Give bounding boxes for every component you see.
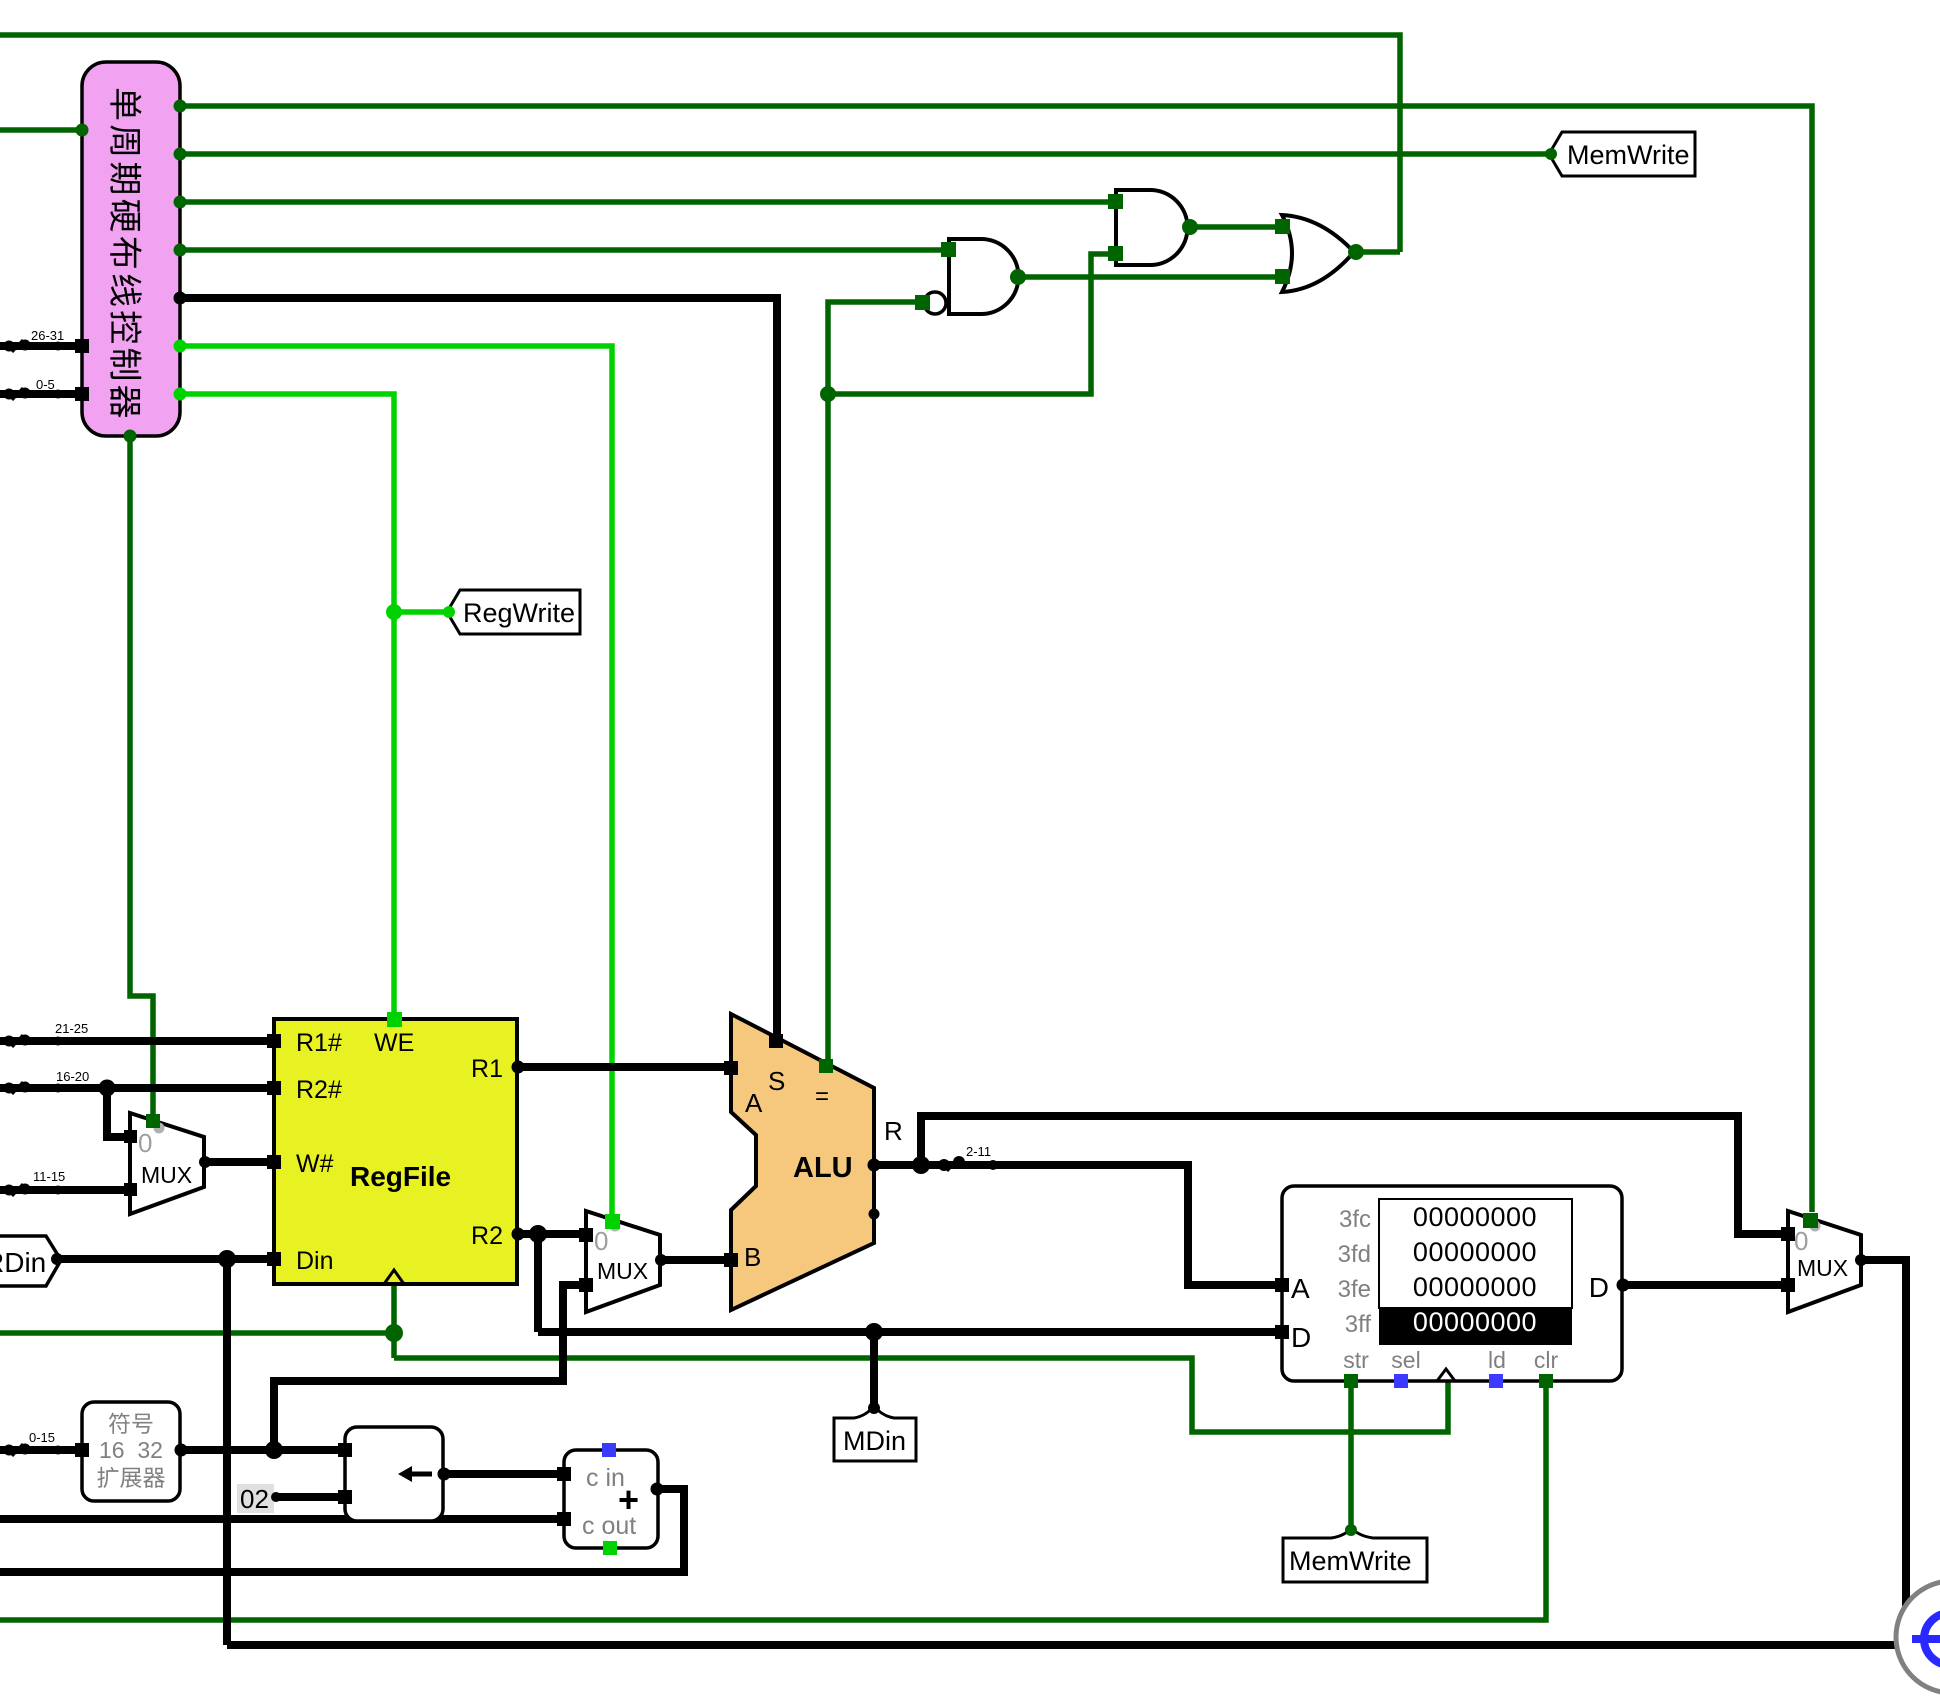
svg-text:D: D (1589, 1272, 1609, 1303)
junction EQ node (820, 386, 836, 402)
splitter marks bus 21-25 (4, 1035, 63, 1048)
splitter marks bus 11-15 (4, 1184, 63, 1197)
port dot MemWrite tunnel bottom (1345, 1524, 1357, 1536)
wire controller out2 to MemWrite tunnel (180, 151, 1549, 157)
wire bus 16-20 to RegFile R2# (0, 1084, 274, 1092)
svg-text:26-31: 26-31 (31, 328, 64, 343)
left MUX ports (124, 1114, 211, 1196)
wire controller out3 to AND gate input A (180, 199, 1116, 205)
svg-text:A: A (745, 1088, 763, 1118)
svg-text:R1: R1 (471, 1055, 503, 1083)
right MUX M3 (1788, 1211, 1861, 1312)
wire controller bottom to left MUX select (130, 436, 153, 1122)
svg-text:2-11: 2-11 (966, 1144, 991, 1159)
svg-text:00000000: 00000000 (1413, 1202, 1537, 1232)
left MUX M1 (130, 1113, 204, 1214)
svg-text:16 32: 16 32 (99, 1437, 163, 1463)
constant 02 (237, 1484, 274, 1514)
svg-text:B: B (744, 1242, 761, 1272)
wire writeback bottom rail to output pin (227, 1641, 1898, 1649)
svg-text:00000000: 00000000 (1413, 1237, 1537, 1267)
junction ALU R branch (912, 1156, 930, 1174)
junction Din writeback (218, 1250, 236, 1268)
output pin P1 (1896, 1581, 1940, 1693)
svg-text:3fc: 3fc (1339, 1206, 1371, 1233)
svg-text:3fe: 3fe (1338, 1276, 1371, 1303)
svg-text:sel: sel (1391, 1347, 1420, 1373)
svg-text:RegWrite: RegWrite (463, 598, 575, 628)
ALU U3 (731, 1014, 903, 1310)
wire constant 02 to shifter input1 (274, 1493, 345, 1501)
svg-text:0-5: 0-5 (36, 377, 55, 392)
wire top feedback loop from OR gate output to left edge (0, 35, 1400, 252)
memory ports (1275, 1278, 1630, 1388)
wire controller left input (0, 127, 82, 133)
svg-text:D: D (1291, 1322, 1311, 1353)
wire left MUX output to RegFile W# (204, 1158, 274, 1166)
wire OR output to feedback (1354, 249, 1400, 255)
junction immediate branch (265, 1441, 283, 1459)
junction MDin (865, 1323, 883, 1341)
svg-text:R1#: R1# (296, 1029, 342, 1057)
splitter marks bus 16-20 (4, 1082, 63, 1095)
svg-text:clr: clr (1534, 1347, 1559, 1373)
controller port dots (75, 100, 187, 443)
splitter marks bus 0-5 (4, 388, 63, 401)
wire memory str to MemWrite tunnel (1348, 1383, 1354, 1534)
wire B-MUX output to ALU B (660, 1256, 725, 1264)
svg-text:R: R (884, 1116, 903, 1146)
svg-text:R2: R2 (471, 1222, 503, 1250)
port dot RegWrite tunnel (443, 606, 455, 618)
tunnel RegWrite (447, 590, 580, 634)
svg-text:A: A (1291, 1273, 1310, 1304)
svg-text:ALU: ALU (793, 1152, 853, 1184)
constant 02 port (271, 1492, 281, 1502)
wire immediate to B-MUX input1 (274, 1285, 581, 1450)
svg-text:0-15: 0-15 (29, 1430, 55, 1445)
wire bus 0-5 into controller (0, 390, 82, 398)
junction RegFile clock (385, 1324, 403, 1342)
wire Din tunnel to RegFile Din (59, 1255, 274, 1263)
svg-text:3ff: 3ff (1345, 1311, 1372, 1338)
wire R2 run to memory D input (538, 1328, 1284, 1336)
extender ports (75, 1443, 188, 1457)
wire RegFile R1 to ALU A (517, 1063, 725, 1071)
wire bus 11-15 to left MUX input1 (0, 1186, 130, 1194)
wire controller out7 RegWrite to RegFile WE (180, 394, 394, 1021)
extender U5 sign extend 16 to 32 (82, 1402, 180, 1501)
wire clock from left edge to RegFile clock node (0, 1330, 394, 1336)
RegFile U2 (274, 1019, 517, 1284)
NAND gate ports (915, 242, 1026, 310)
splitter marks bus 2-11 (938, 1156, 998, 1171)
OR gate ports (1275, 219, 1364, 284)
adder U7 (564, 1450, 658, 1548)
wire memory D output to right MUX input1 (1622, 1281, 1788, 1289)
AND gate G2 with inverted input (924, 239, 1019, 314)
svg-text:R2#: R2# (296, 1076, 342, 1104)
wire bus 0-15 into extender (0, 1446, 82, 1454)
wire controller out5 ALU op to ALU S (180, 298, 777, 1043)
wire ALU R branch to right MUX input0 (921, 1116, 1788, 1234)
svg-text:0: 0 (1794, 1226, 1808, 1256)
svg-text:MUX: MUX (1797, 1255, 1848, 1281)
port dot Din tunnel (51, 1253, 63, 1265)
port dot MDin tunnel (868, 1402, 880, 1414)
wire bus 26-31 into controller (0, 342, 82, 350)
svg-text:S: S (768, 1066, 785, 1096)
svg-text:str: str (1343, 1347, 1369, 1373)
AND gate ports (1108, 194, 1198, 261)
wire branch R2 down to memory D (534, 1234, 542, 1332)
wire controller out4 to NAND gate input A (180, 247, 949, 253)
svg-text:3fd: 3fd (1338, 1241, 1371, 1268)
shifter ports (338, 1443, 451, 1504)
wire extender output to shifter (180, 1446, 345, 1454)
svg-text:MUX: MUX (597, 1258, 648, 1284)
svg-text:Din: Din (296, 1247, 334, 1275)
wire clock run to memory clock (394, 1358, 1448, 1432)
shifter U6 shift left (345, 1427, 443, 1521)
tunnel MDin (834, 1406, 916, 1461)
tunnel Din left edge (0, 1236, 61, 1286)
wire branch 16-20 to left MUX input0 (107, 1088, 130, 1137)
wire controller out6 to B-MUX select (180, 346, 612, 1221)
junction RegWrite (386, 604, 402, 620)
B MUX ports (579, 1214, 667, 1292)
svg-text:02: 02 (240, 1484, 269, 1514)
svg-text:ld: ld (1488, 1347, 1506, 1373)
svg-text:RegFile: RegFile (350, 1161, 451, 1192)
junction R2 branch (529, 1225, 547, 1243)
svg-text:MemWrite: MemWrite (1567, 140, 1690, 170)
svg-text:W#: W# (296, 1150, 334, 1178)
wire node EQ down to ALU equal port (825, 394, 831, 1062)
ALU ports (724, 1034, 881, 1267)
svg-text:=: = (815, 1083, 829, 1110)
wire node RegWrite to RegWrite tunnel (394, 609, 447, 615)
RegFile ports (267, 1012, 525, 1266)
svg-text:MDin: MDin (843, 1426, 906, 1456)
svg-text:0: 0 (138, 1128, 152, 1158)
splitter marks bus 0-15 (4, 1444, 63, 1457)
wire ALU equal to NAND inverted input (828, 302, 926, 394)
svg-text:MUX: MUX (141, 1162, 192, 1188)
svg-text:MemWrite: MemWrite (1289, 1546, 1412, 1576)
wire NAND output to OR input B (1016, 274, 1280, 280)
svg-text:RDin: RDin (0, 1247, 46, 1278)
svg-text:21-25: 21-25 (55, 1021, 88, 1036)
tunnel MemWrite bottom (1283, 1528, 1427, 1582)
wire adder output loop to left edge (0, 1489, 684, 1572)
wire right MUX output down to writeback rail (1859, 1260, 1906, 1606)
wire ALU R to memory A (874, 1165, 1284, 1285)
svg-text:00000000: 00000000 (1413, 1307, 1537, 1337)
memory U4 RAM (1282, 1186, 1622, 1381)
svg-text:0: 0 (594, 1226, 608, 1256)
OR gate G3 (1282, 215, 1354, 292)
wire memory D node to MDin tunnel (870, 1332, 878, 1406)
adder ports (557, 1443, 664, 1555)
wire RegFile R2 to B-MUX input0 (517, 1230, 581, 1238)
svg-text:00000000: 00000000 (1413, 1272, 1537, 1302)
svg-text:WE: WE (374, 1029, 414, 1057)
wire RegFile clock stub (391, 1282, 397, 1358)
svg-text:11-15: 11-15 (33, 1169, 65, 1184)
junction 16-20 branch (99, 1080, 116, 1097)
wire controller out1 to right MUX select (180, 106, 1812, 1212)
wire node EQ to AND input B (828, 254, 1116, 394)
wire lower bus to adder input1 (0, 1515, 564, 1523)
AND gate G1 (1116, 190, 1188, 265)
port dot MemWrite tunnel top (1545, 148, 1557, 160)
wire AND output to OR input A (1188, 224, 1280, 230)
svg-text:16-20: 16-20 (56, 1069, 89, 1084)
wire writeback vertical from Din node (223, 1259, 231, 1645)
wire shifter output to adder input0 (443, 1470, 564, 1478)
svg-text:c out: c out (582, 1512, 636, 1540)
right MUX ports (1781, 1213, 1867, 1292)
splitter marks bus 26-31 (4, 340, 63, 353)
controller U1 single-cycle hardwired control (82, 62, 180, 436)
B MUX M2 (586, 1211, 660, 1312)
wire memory clr to bottom rail (0, 1383, 1546, 1620)
tunnel MemWrite top (1549, 132, 1695, 176)
wire bus 21-25 to RegFile R1# (0, 1037, 274, 1045)
